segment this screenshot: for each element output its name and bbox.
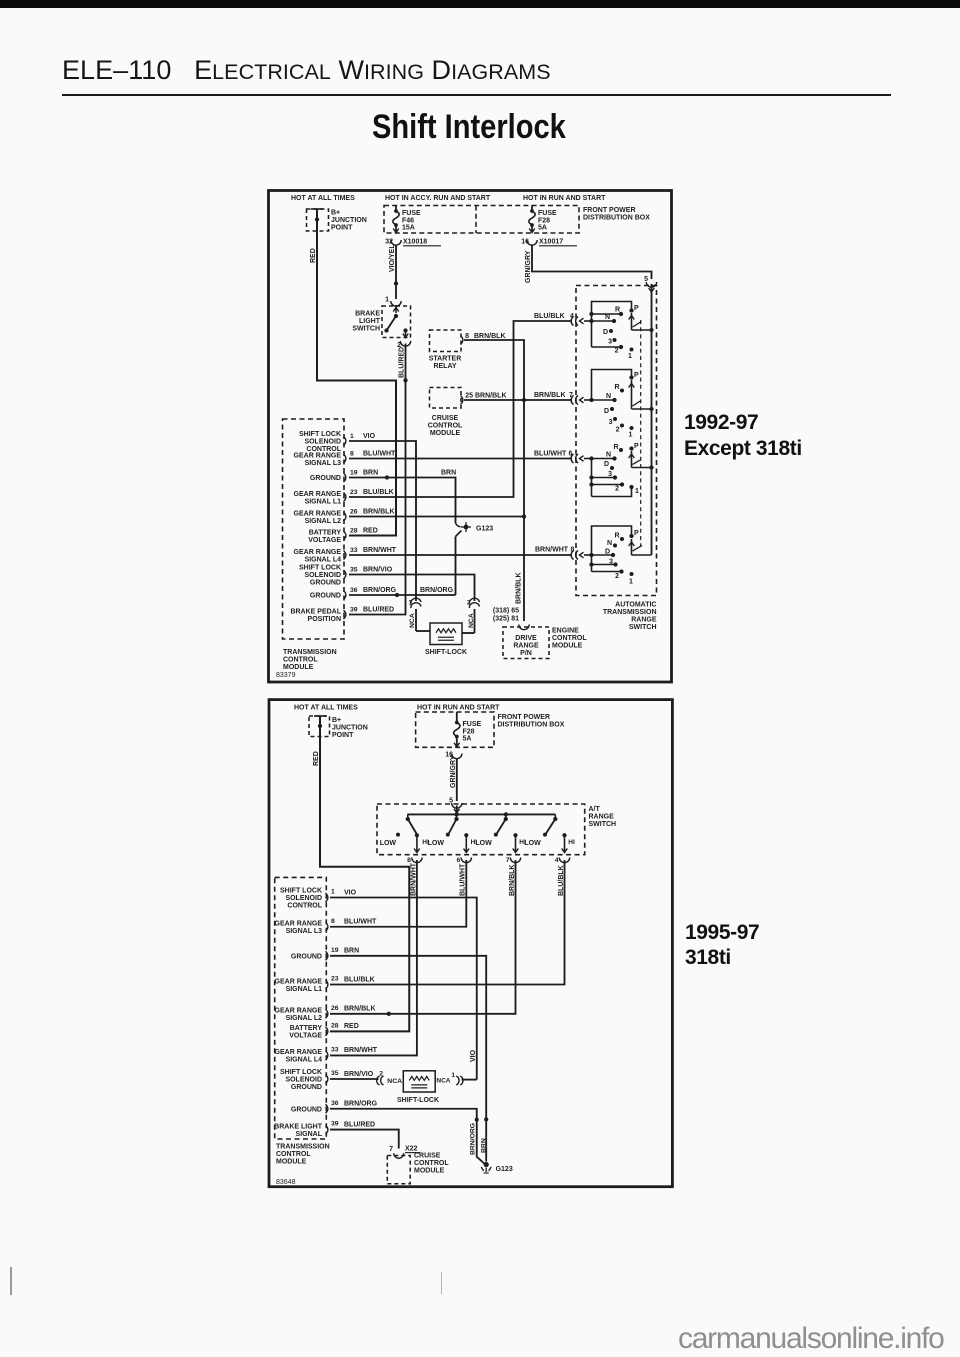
svg-text:G123: G123 (496, 1166, 513, 1173)
svg-text:5A: 5A (538, 225, 547, 232)
svg-text:FUSE: FUSE (402, 210, 421, 217)
svg-text:SIGNAL L4: SIGNAL L4 (286, 1057, 323, 1064)
wire BRN/ORG lower leg into ground G123 (456, 531, 462, 537)
ATRS group 1 contact 3 (open) (613, 338, 617, 342)
left margin scan mark (10, 1267, 12, 1295)
svg-text:BLU/RED: BLU/RED (399, 347, 406, 378)
wire BLU/RED TCM2 pin 39 to cruise control module X22 (330, 1130, 399, 1149)
svg-text:R: R (615, 307, 620, 314)
svg-text:1: 1 (629, 579, 633, 586)
wire VIO TCM pin 1 to shift-lock NCA 1 (349, 441, 416, 601)
svg-text:SHIFT LOCK: SHIFT LOCK (280, 888, 322, 895)
svg-text:GROUND: GROUND (310, 475, 341, 482)
svg-text:2: 2 (615, 348, 619, 355)
A/T range switch element 1 output contact pin 8 (415, 833, 419, 837)
ATRS group 4 contact frame (592, 526, 632, 555)
svg-text:BRN/BLK: BRN/BLK (475, 393, 507, 400)
TCM2 pin 1 VIO (SHIFT LOCK/SOLENOID/CONTROL) (326, 893, 328, 902)
A/T range switch element 3 output contact pin 7 (513, 833, 517, 837)
svg-text:CONTROL: CONTROL (287, 903, 322, 910)
heading rule (62, 94, 891, 96)
svg-text:MODULE: MODULE (283, 664, 314, 671)
svg-text:LOW: LOW (524, 840, 541, 847)
svg-text:TRANSMISSION: TRANSMISSION (276, 1144, 330, 1151)
svg-text:BRN/BLK: BRN/BLK (474, 333, 506, 340)
svg-text:2: 2 (616, 427, 620, 434)
svg-text:B+: B+ (331, 210, 340, 217)
svg-text:N: N (607, 540, 612, 547)
svg-text:SIGNAL L3: SIGNAL L3 (286, 928, 323, 935)
A/T range switch element 2 (pin 6) (456, 814, 458, 819)
wire BLU/BLK TCM pin 23 to ATRS pin 4 (349, 321, 572, 497)
svg-text:GEAR RANGE: GEAR RANGE (294, 549, 342, 556)
svg-text:SWITCH: SWITCH (629, 624, 657, 631)
wire BRN/ORG TCM pin 36 to ground G123 vertical (349, 594, 456, 596)
TCM2 pin 23 BLU/BLK (GEAR RANGE/SIGNAL L1) (326, 980, 328, 989)
svg-text:BRAKE: BRAKE (355, 311, 380, 318)
ATRS group 3 P contact (629, 446, 633, 450)
svg-text:7: 7 (389, 1146, 393, 1153)
svg-text:POINT: POINT (332, 732, 354, 739)
svg-text:33: 33 (331, 1046, 339, 1053)
TCM2 pin 28 RED (BATTERY/VOLTAGE) (326, 1027, 328, 1036)
svg-text:BATTERY: BATTERY (290, 1025, 323, 1032)
svg-text:DISTRIBUTION BOX: DISTRIBUTION BOX (583, 215, 650, 222)
svg-text:TRANSMISSION: TRANSMISSION (603, 609, 657, 616)
wire BRN/WHT TCM pin 33 to ATRS pin 8 (349, 554, 572, 556)
wire BLU/WHT TCM pin 8 to ATRS pin 6 (349, 458, 572, 460)
svg-text:MODULE: MODULE (276, 1159, 307, 1166)
wire VIO TCM2 pin 1 to shift-lock NCA 1 (diagram 2) (330, 898, 477, 1080)
svg-text:36: 36 (331, 1100, 339, 1107)
svg-text:CONTROL: CONTROL (428, 423, 463, 430)
wire BLU/WHT range switch pin 6 to TCM pin 8 (330, 860, 466, 927)
svg-text:SIGNAL L4: SIGNAL L4 (305, 556, 342, 563)
TCM pin 35 BRN/VIO (SHIFT LOCK/SOLENOID/GROUND) (344, 570, 346, 579)
svg-text:(318) 65: (318) 65 (493, 608, 519, 615)
svg-text:HOT AT ALL TIMES: HOT AT ALL TIMES (294, 705, 358, 712)
svg-text:7: 7 (506, 857, 510, 864)
TCM pin 19 BRN (GROUND) (344, 473, 346, 482)
B+ junction point (diagram 2) (309, 716, 330, 737)
ATRS group 2 N contact (589, 398, 593, 402)
svg-text:3: 3 (609, 419, 613, 426)
svg-text:26: 26 (331, 1005, 339, 1012)
svg-text:GEAR RANGE: GEAR RANGE (275, 978, 323, 985)
wire BRN/WHT range switch pin 8 to TCM pin 33 (330, 860, 417, 1055)
ATRS group 3 R contact (open) (619, 448, 623, 452)
svg-text:23: 23 (331, 976, 339, 983)
svg-text:BRN/BLK: BRN/BLK (363, 508, 395, 515)
svg-text:83379: 83379 (276, 672, 296, 679)
ATRS feed wire from pin 5 (vertical bus) (651, 284, 653, 555)
svg-text:VIO: VIO (344, 889, 357, 896)
svg-text:CRUISE: CRUISE (432, 415, 459, 422)
svg-text:N: N (606, 452, 611, 459)
svg-text:CONTROL: CONTROL (552, 635, 587, 642)
svg-text:N: N (606, 393, 611, 400)
center margin scan mark (441, 1272, 442, 1294)
svg-text:SWITCH: SWITCH (589, 821, 617, 828)
wire BLU/RED brake light switch pin 2 to TCM pin 39 (349, 344, 406, 615)
svg-text:RED: RED (310, 248, 317, 263)
svg-text:SHIFT-LOCK: SHIFT-LOCK (425, 649, 467, 656)
svg-text:RED: RED (344, 1023, 359, 1030)
svg-text:RANGE: RANGE (589, 814, 615, 821)
top scanner black bar (0, 0, 960, 8)
svg-text:SHIFT-LOCK: SHIFT-LOCK (397, 1097, 439, 1104)
ATRS group 1 contact 1 (open) (630, 348, 634, 352)
svg-text:BRAKE LIGHT: BRAKE LIGHT (274, 1123, 323, 1130)
svg-text:SIGNAL L2: SIGNAL L2 (286, 1015, 323, 1022)
ATRS group 4 wiper to feed bus end (631, 539, 633, 555)
svg-text:D: D (605, 549, 610, 556)
wire RED from B+ junction down-right to TCM pin 28 (battery voltage net) (317, 209, 396, 536)
ATRS group 3 contact 3 (589, 475, 593, 479)
svg-text:FUSE: FUSE (463, 721, 482, 728)
svg-text:MODULE: MODULE (552, 643, 583, 650)
watermark carmanualsonline.info (678, 1322, 944, 1356)
svg-text:JUNCTION: JUNCTION (331, 217, 367, 224)
svg-text:NCA: NCA (387, 1078, 402, 1085)
svg-text:A/T: A/T (589, 806, 601, 813)
fuse F46 15A (395, 206, 397, 212)
wire BRN/VIO TCM pin 35 to shift-lock NCA 2 (349, 575, 475, 602)
svg-text:19: 19 (350, 469, 358, 476)
svg-text:GEAR RANGE: GEAR RANGE (294, 452, 342, 459)
svg-text:(325) 81: (325) 81 (493, 616, 519, 623)
fuse F28 5A (diagram 2) (456, 712, 458, 723)
svg-text:GROUND: GROUND (310, 580, 341, 587)
ATRS group 4 R contact (open) (620, 537, 624, 541)
svg-text:SHIFT LOCK: SHIFT LOCK (299, 565, 341, 572)
svg-text:MODULE: MODULE (414, 1168, 445, 1175)
svg-text:BRN/BLK: BRN/BLK (516, 573, 523, 605)
ATRS contact group 4 - connector pin 8 (571, 551, 573, 560)
ATRS group 2 wiper to feed bus (631, 380, 633, 409)
svg-text:2: 2 (615, 573, 619, 580)
front power distribution box (diagram 1) (384, 206, 579, 234)
svg-text:26: 26 (350, 508, 358, 515)
svg-text:HOT IN RUN AND START: HOT IN RUN AND START (417, 705, 500, 712)
svg-text:CONTROL: CONTROL (414, 1160, 449, 1167)
svg-text:3: 3 (609, 559, 613, 566)
svg-text:BRN/VIO: BRN/VIO (363, 566, 393, 573)
ATRS group 2 R contact (open) (620, 389, 624, 393)
diagram 2 border frame (269, 700, 672, 1187)
svg-text:SHIFT LOCK: SHIFT LOCK (280, 1069, 322, 1076)
svg-text:BRN/VIO: BRN/VIO (344, 1071, 374, 1078)
svg-text:RELAY: RELAY (433, 363, 456, 370)
page heading ELE-110 (62, 55, 551, 86)
svg-text:1: 1 (635, 488, 639, 495)
svg-text:BLU/RED: BLU/RED (344, 1121, 375, 1128)
A/T range switch element 3 (pin 7) (505, 814, 507, 819)
svg-text:POINT: POINT (331, 225, 353, 232)
svg-text:BRN: BRN (363, 469, 378, 476)
svg-text:X22: X22 (405, 1146, 418, 1153)
svg-text:5: 5 (644, 276, 648, 283)
svg-text:GRN/GRY: GRN/GRY (525, 250, 532, 283)
wire GRN/GRY fuse F28 to ATRS pin 5 (532, 245, 652, 280)
svg-text:1: 1 (451, 1072, 455, 1079)
TCM pin 33 BRN/WHT (GEAR RANGE/SIGNAL L4) (344, 551, 346, 560)
svg-text:D: D (604, 461, 609, 468)
svg-text:ENGINE: ENGINE (552, 628, 579, 635)
svg-text:F46: F46 (402, 218, 414, 225)
transmission control module (diagram 1) (283, 419, 345, 639)
svg-text:SOLENOID: SOLENOID (285, 1077, 322, 1084)
svg-text:2: 2 (615, 486, 619, 493)
svg-text:35: 35 (331, 1070, 339, 1077)
svg-text:X10018: X10018 (403, 239, 427, 246)
wire GRN/GRY fuse F28 to A/T range switch pin 5 (456, 758, 458, 801)
diagram 1 border frame (269, 191, 672, 683)
svg-text:BLU/WHT: BLU/WHT (344, 919, 377, 926)
svg-text:GEAR RANGE: GEAR RANGE (275, 1049, 323, 1056)
svg-text:4: 4 (555, 857, 559, 864)
svg-text:BLU/BLK: BLU/BLK (558, 865, 565, 896)
svg-text:BRN/WHT: BRN/WHT (535, 547, 569, 554)
ATRS group 1 contact 2 (592, 346, 622, 348)
svg-text:TRANSMISSION: TRANSMISSION (283, 649, 337, 656)
ATRS group 1 R contact (592, 313, 622, 315)
TCM pin 36 BRN/ORG (GROUND) (344, 591, 346, 600)
fuse F28 5A (diagram 1) (531, 206, 533, 212)
svg-text:1: 1 (629, 432, 633, 439)
svg-text:8: 8 (465, 333, 469, 340)
TCM2 pin 19 BRN (GROUND) (326, 951, 328, 960)
ATRS group 3 N contact (589, 456, 593, 460)
A/T range switch element 4 (pin 4) (554, 814, 556, 819)
wire BRN TCM pin 19 to ground G123 (349, 478, 456, 524)
svg-text:GROUND: GROUND (291, 953, 322, 960)
TCM pin 1 VIO (SHIFT LOCK/SOLENOID/CONTROL) (344, 437, 346, 446)
starter relay (430, 330, 462, 352)
svg-text:NCA: NCA (468, 613, 475, 628)
svg-text:BLU/BLK: BLU/BLK (344, 976, 375, 983)
ATRS group 3 D contact (open) (610, 466, 614, 470)
svg-text:BRN/WHT: BRN/WHT (410, 862, 417, 896)
svg-text:83648: 83648 (276, 1179, 296, 1186)
svg-text:BATTERY: BATTERY (309, 529, 342, 536)
ATRS group 1 contact frame (592, 302, 632, 348)
svg-text:BRN/BLK: BRN/BLK (509, 865, 516, 897)
A/T range switch element 4 LOW contact (open) (543, 833, 547, 837)
ATRS group 1 N contact (589, 319, 593, 323)
transmission control module (diagram 2) (275, 877, 327, 1139)
svg-text:25: 25 (465, 393, 473, 400)
A/T range switch element 3 LOW contact (open) (494, 833, 498, 837)
svg-text:8: 8 (331, 918, 335, 925)
svg-text:3: 3 (608, 471, 612, 478)
svg-text:R: R (613, 444, 618, 451)
engine control module (diagram 1) (503, 627, 549, 659)
svg-text:VOLTAGE: VOLTAGE (308, 537, 341, 544)
ATRS group 4 N contact (open) (613, 544, 617, 548)
svg-text:RANGE: RANGE (513, 643, 539, 650)
svg-text:LOW: LOW (380, 840, 397, 847)
svg-text:VIO: VIO (363, 433, 376, 440)
front power distribution box (diagram 2) (416, 712, 494, 747)
svg-text:VOLTAGE: VOLTAGE (289, 1033, 322, 1040)
TCM2 pin 39 BLU/RED (BRAKE LIGHT/SIGNAL) (326, 1125, 328, 1134)
svg-text:36: 36 (350, 587, 358, 594)
svg-text:BRN/BLK: BRN/BLK (534, 392, 566, 399)
brake light switch lever (387, 316, 397, 331)
svg-text:23: 23 (350, 489, 358, 496)
svg-text:P: P (634, 530, 639, 537)
svg-text:1: 1 (331, 889, 335, 896)
svg-text:RANGE: RANGE (631, 617, 657, 624)
svg-text:DISTRIBUTION BOX: DISTRIBUTION BOX (498, 722, 565, 729)
svg-text:BRN/ORG: BRN/ORG (363, 587, 397, 594)
label 1992-97 Except 318ti (684, 410, 802, 463)
ATRS group 4 D contact (589, 553, 593, 557)
label 1995-97 318ti (685, 921, 759, 970)
svg-text:SIGNAL: SIGNAL (296, 1131, 323, 1138)
svg-text:F28: F28 (463, 729, 475, 736)
svg-text:NCA: NCA (436, 1078, 450, 1085)
svg-text:P/N: P/N (520, 650, 532, 657)
svg-text:FRONT POWER: FRONT POWER (498, 714, 551, 721)
svg-text:JUNCTION: JUNCTION (332, 725, 368, 732)
ATRS group 4 contact 1 (open) (630, 572, 634, 576)
svg-text:STARTER: STARTER (429, 356, 462, 363)
svg-text:D: D (604, 408, 609, 415)
svg-text:GROUND: GROUND (291, 1106, 322, 1113)
svg-text:BRN/WHT: BRN/WHT (344, 1047, 378, 1054)
svg-text:35: 35 (350, 566, 358, 573)
svg-text:R: R (614, 533, 619, 540)
svg-text:GRN/GRY: GRN/GRY (450, 755, 457, 788)
ATRS group 3 contact bar (591, 459, 593, 497)
svg-text:SIGNAL L3: SIGNAL L3 (305, 460, 342, 467)
svg-text:SIGNAL L2: SIGNAL L2 (305, 518, 342, 525)
ATRS group 3 contact 1 (592, 487, 632, 497)
svg-text:CONTROL: CONTROL (276, 1151, 311, 1158)
svg-text:RED: RED (313, 751, 320, 766)
ATRS group 2 contact 1 (open) (630, 426, 634, 430)
svg-text:BLU/WHT: BLU/WHT (460, 863, 467, 896)
svg-text:GEAR RANGE: GEAR RANGE (275, 1008, 323, 1015)
wire BRN/BLK starter relay pin 8 junction to ECM (vertical bus) (464, 340, 524, 621)
svg-text:BRN: BRN (441, 470, 456, 477)
junction BRN/BLK bus with TCM pin 26 wire (522, 514, 526, 518)
svg-text:1: 1 (385, 297, 389, 304)
ATRS group 2 contact 3 (open) (613, 417, 617, 421)
svg-text:BLU/WHT: BLU/WHT (534, 451, 567, 458)
svg-text:SIGNAL L1: SIGNAL L1 (305, 498, 342, 505)
ATRS group 4 contact 2 (591, 555, 593, 572)
svg-text:BLU/RED: BLU/RED (363, 606, 394, 613)
svg-text:33: 33 (350, 547, 358, 554)
ATRS mechanical linkage (dashed) (640, 320, 642, 546)
shift-lock solenoid (diagram 1) (416, 630, 430, 632)
svg-text:1: 1 (350, 433, 354, 440)
wire BRN TCM2 pin 19 to ground G123 (diagram 2) (330, 956, 486, 1162)
svg-text:28: 28 (331, 1022, 339, 1029)
cruise control module (diagram 2) (387, 1156, 410, 1184)
TCM2 pin 8 BLU/WHT (GEAR RANGE/SIGNAL L3) (326, 922, 328, 931)
svg-text:1: 1 (628, 353, 632, 360)
ground G123 (diagram 1) (456, 523, 461, 527)
svg-text:VIO: VIO (470, 1049, 477, 1062)
svg-text:X10017: X10017 (539, 239, 563, 246)
ATRS contact group 3 - connector pin 6 (571, 454, 573, 463)
svg-text:P: P (634, 443, 639, 450)
svg-text:MODULE: MODULE (430, 430, 461, 437)
svg-text:RED: RED (363, 527, 378, 534)
svg-text:SOLENOID: SOLENOID (285, 895, 322, 902)
svg-text:HOT AT ALL TIMES: HOT AT ALL TIMES (291, 195, 355, 202)
B+ junction point (diagram 1) (307, 209, 329, 231)
TCM pin 26 BRN/BLK (GEAR RANGE/SIGNAL L2) (344, 512, 346, 521)
svg-text:GEAR RANGE: GEAR RANGE (294, 491, 342, 498)
svg-text:SWITCH: SWITCH (352, 326, 380, 333)
svg-text:GEAR RANGE: GEAR RANGE (294, 510, 342, 517)
svg-text:BRN/ORG: BRN/ORG (344, 1101, 378, 1108)
wire RED from B+ junction to TCM pin 28 (diagram 2) (320, 716, 409, 1031)
svg-text:BLU/BLK: BLU/BLK (363, 489, 394, 496)
svg-text:CRUISE: CRUISE (414, 1153, 441, 1160)
wire BRN/BLK TCM pin 26 to BRN/BLK bus (349, 516, 524, 518)
svg-text:SOLENOID: SOLENOID (304, 439, 341, 446)
svg-text:B+: B+ (332, 717, 341, 724)
ATRS group 3 wiper to feed bus (631, 451, 633, 468)
automatic transmission range switch housing (diagram 1) (576, 286, 657, 596)
A/T range switch element 1 (pin 8) (407, 814, 409, 819)
svg-text:BRN/ORG: BRN/ORG (470, 1123, 477, 1155)
svg-text:VIO/YEL: VIO/YEL (389, 244, 396, 272)
page title Shift Interlock (372, 108, 566, 147)
ATRS group 2 D contact (open) (610, 407, 614, 411)
ground G123 (diagram 2) (484, 1162, 489, 1167)
svg-text:BRAKE PEDAL: BRAKE PEDAL (290, 608, 341, 615)
ATRS contact group 1 - connector pin 4 (571, 317, 573, 326)
svg-text:G123: G123 (476, 526, 493, 533)
A/T range switch element 4 output contact pin 4 (562, 833, 566, 837)
svg-text:BRN: BRN (480, 1138, 487, 1153)
svg-text:CONTROL: CONTROL (283, 657, 318, 664)
svg-text:BLU/WHT: BLU/WHT (363, 450, 396, 457)
TCM2 pin 35 BRN/VIO (SHIFT LOCK/SOLENOID/GROUND) (326, 1075, 328, 1084)
svg-text:15A: 15A (402, 225, 415, 232)
cruise control module pin 25 (461, 396, 463, 405)
svg-text:3: 3 (608, 339, 612, 346)
svg-text:GROUND: GROUND (310, 593, 341, 600)
svg-text:F28: F28 (538, 218, 550, 225)
svg-text:6: 6 (457, 857, 461, 864)
TCM2 pin 26 BRN/BLK (GEAR RANGE/SIGNAL L2) (326, 1009, 328, 1018)
TCM pin 23 BLU/BLK (GEAR RANGE/SIGNAL L1) (344, 493, 346, 502)
starter relay pin 8 (461, 336, 463, 345)
svg-text:5A: 5A (463, 736, 472, 743)
junction BRN/BLK bus with pin 7 wire (522, 398, 526, 402)
svg-text:39: 39 (331, 1121, 339, 1128)
TCM2 pin 36 BRN/ORG (GROUND) (326, 1104, 328, 1113)
svg-text:AUTOMATIC: AUTOMATIC (615, 602, 656, 609)
ATRS group 1 wiper to feed bus (631, 313, 633, 330)
svg-text:BRN/BLK: BRN/BLK (344, 1006, 376, 1013)
ATRS group 2 contact 2 (open) (620, 424, 624, 428)
svg-text:8: 8 (350, 450, 354, 457)
ATRS group 1 D contact (open) (609, 329, 613, 333)
A/T range switch housing (diagram 2) (377, 804, 585, 855)
svg-text:SOLENOID: SOLENOID (304, 572, 341, 579)
svg-text:39: 39 (350, 606, 358, 613)
ATRS contact group 2 - connector pin 7 (571, 396, 573, 405)
